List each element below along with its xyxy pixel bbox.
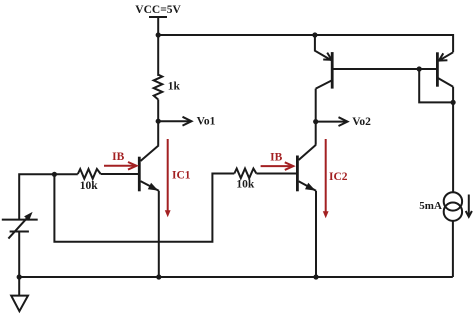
wire input left	[19, 174, 78, 219]
wire Q4 collector down	[452, 87, 454, 193]
wire R3 to Q2 base	[256, 173, 296, 175]
node feedback junction	[52, 172, 57, 177]
wire Q2 emitter down	[315, 191, 317, 277]
svg-text:10k: 10k	[80, 180, 99, 192]
transistor Q3 base bar	[331, 52, 334, 89]
svg-text:IB: IB	[270, 152, 282, 164]
svg-text:Vo2: Vo2	[352, 116, 371, 128]
wire bottom rail	[19, 276, 453, 278]
transistor Q4 emitter	[439, 52, 454, 61]
wire I1 to bottom rail	[452, 221, 454, 277]
transistor Q3 collector	[316, 81, 332, 89]
current source I1 5mA circles	[444, 192, 462, 210]
arrow IB stage2	[261, 152, 294, 170]
wire Q3 collector to Q2 collector	[315, 89, 317, 145]
svg-text:1k: 1k	[168, 81, 181, 93]
arrow IC2	[323, 139, 348, 218]
node VCC rail junction	[156, 32, 161, 37]
wire feedback	[54, 174, 234, 242]
current source I1 arrow	[466, 195, 472, 217]
node Vo2	[313, 119, 318, 124]
transistor Q4 collector	[438, 78, 453, 87]
ground symbol	[11, 296, 28, 312]
svg-text:IC1: IC1	[172, 170, 191, 182]
svg-text:IC2: IC2	[329, 171, 348, 183]
node Q1 emitter rail	[156, 274, 161, 279]
node Q2 emitter rail	[313, 274, 318, 279]
wire top rail	[158, 35, 453, 52]
arrow IC1	[165, 139, 191, 217]
transistor Q1 collector	[141, 145, 159, 161]
VCC supply bar	[149, 16, 167, 18]
svg-text:Vo1: Vo1	[197, 116, 216, 128]
transistor Q1 emitter	[141, 181, 159, 191]
wire VCC vertical	[157, 17, 159, 76]
arrow Vo2	[316, 116, 371, 128]
node ground junction	[17, 274, 22, 279]
arrow Vo1	[158, 116, 215, 128]
capacitor C1 variable bottom plate	[10, 231, 29, 233]
svg-text:IB: IB	[112, 151, 124, 163]
node Q4 collector base tie	[451, 100, 456, 105]
node Q4 base junction	[417, 66, 422, 71]
wire base link Q3 Q4	[333, 68, 437, 70]
node Q3 emitter junction	[312, 32, 317, 37]
svg-text:5mA: 5mA	[419, 200, 442, 212]
transistor Q2 emitter	[299, 181, 316, 191]
wire Q1 emitter down	[158, 191, 160, 277]
transistor Q4 base bar	[436, 52, 439, 86]
transistor Q2 collector	[299, 145, 316, 160]
wire cap to ground rail	[18, 232, 20, 296]
svg-text:10k: 10k	[236, 178, 255, 190]
node Vo1	[156, 119, 161, 124]
wire Q1 base	[101, 173, 138, 175]
wire R1 to Vo1 node	[157, 100, 159, 146]
transistor Q1 base bar	[138, 157, 141, 192]
resistor R1 1k	[154, 75, 163, 100]
resistor R3 10k	[234, 169, 256, 179]
transistor Q2 base bar	[296, 156, 299, 192]
arrow IB stage1	[104, 151, 137, 170]
resistor R2 10k	[78, 169, 101, 179]
capacitor C1 variable top plate	[2, 219, 38, 221]
svg-text:VCC=5V: VCC=5V	[135, 4, 181, 16]
wire diode connect	[419, 69, 453, 102]
capacitor C1 arrow	[8, 212, 32, 239]
transistor Q3 emitter	[315, 35, 332, 60]
